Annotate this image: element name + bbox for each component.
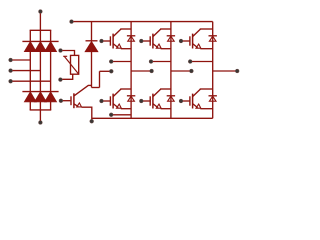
terminal brake emitter / DC- pin bbox=[90, 119, 94, 123]
wire emitter sense lead leg 1 bbox=[111, 114, 131, 116]
diode D13 cathode bar bbox=[167, 35, 175, 37]
wire inverter leg 3 main vertical (DC+ to DC-) bbox=[212, 22, 214, 119]
wire rectifier mid column left bbox=[29, 52, 31, 92]
diode D12 freewheel (open triangle, cathode up) bbox=[128, 96, 135, 101]
terminal Q5 top W gate pin bbox=[179, 39, 183, 43]
terminal DC+ rectifier output (top pin) bbox=[39, 10, 43, 14]
transistor Q7 brake IGBT body bar bbox=[73, 93, 75, 108]
diode D7 brake (cathode bar) bbox=[86, 40, 98, 42]
wire rectifier top stem bbox=[39, 12, 41, 31]
transistor Q5 top W emitter diagonal bbox=[193, 44, 198, 48]
terminal thermistor pin 2 bbox=[59, 78, 63, 82]
wire Q6 bottom W emitter run bbox=[200, 108, 212, 110]
transistor Q5 top W gate bar bbox=[189, 36, 191, 45]
transistor Q1 top U collector diagonal bbox=[113, 29, 121, 36]
wire inverter leg 1 main vertical (DC+ to DC-) bbox=[130, 22, 132, 119]
transistor Q1 top U emitter arrow bbox=[117, 44, 122, 48]
wire brake auxiliary lead bbox=[100, 70, 112, 72]
transistor Q2 bottom U body bar bbox=[112, 94, 114, 109]
terminal Q3 top V gate pin bbox=[139, 39, 143, 43]
transistor Q4 bottom V emitter diagonal bbox=[153, 104, 158, 108]
terminal DC+ inverter bus pin bbox=[70, 20, 74, 24]
wire rectifier bottom column mid bbox=[39, 102, 41, 110]
transistor Q6 bottom W gate bar bbox=[189, 96, 191, 105]
wire Q4 bottom V emitter run bbox=[161, 108, 171, 110]
wire brake collector stub left bbox=[88, 84, 91, 86]
transistor Q7 brake IGBT emitter diagonal bbox=[74, 104, 78, 107]
wire DC- rail bbox=[92, 117, 213, 119]
terminal Q6 bottom W gate pin bbox=[179, 99, 183, 103]
wire AC input W bbox=[11, 80, 51, 82]
diode D11 cathode bar bbox=[127, 35, 135, 37]
wire phase output 3 bbox=[190, 61, 213, 63]
transistor Q7 brake IGBT emitter arrow bbox=[77, 103, 82, 107]
wire Q3 top V gate lead bbox=[141, 40, 150, 42]
transistor Q3 top V body bar bbox=[152, 34, 154, 49]
wire Q1 top U emitter run bbox=[121, 48, 131, 50]
transistor Q4 bottom V body bar bbox=[152, 94, 154, 109]
terminal phase output pin 1 bbox=[109, 60, 113, 64]
wire brake emitter run bbox=[82, 107, 92, 121]
diode D1 (rectifier top, anode down cathode up) bbox=[24, 41, 36, 51]
wire Q2 bottom U emitter run bbox=[121, 108, 131, 110]
transistor Q4 bottom V emitter arrow bbox=[156, 104, 161, 108]
wire brake collector riser bbox=[99, 71, 101, 87]
wire thermistor bottom lead bbox=[60, 74, 72, 79]
transistor Q3 top V collector diagonal bbox=[153, 29, 161, 36]
diode D14 cathode bar bbox=[167, 95, 175, 97]
terminal thermistor pin 1 bbox=[59, 49, 63, 53]
terminal brake auxiliary pin bbox=[109, 69, 113, 73]
transistor Q6 bottom W emitter diagonal bbox=[193, 104, 198, 108]
wire brake gate lead bbox=[61, 100, 71, 102]
transistor Q6 bottom W emitter arrow bbox=[196, 104, 201, 108]
wire rectifier bottom column right bbox=[50, 102, 52, 110]
thermistor RT1 diagonal stroke bbox=[64, 56, 78, 73]
transistor Q1 top U body bar bbox=[112, 34, 114, 49]
diode D15 freewheel (open triangle, cathode up) bbox=[209, 36, 216, 41]
diode D4 (rectifier bottom, anode down cathode up) bbox=[24, 92, 36, 102]
wire DC+ rail bbox=[72, 21, 213, 23]
wire Q4 bottom V gate lead bbox=[141, 100, 150, 102]
terminal AC input U bbox=[9, 58, 13, 62]
transistor Q3 top V emitter diagonal bbox=[153, 44, 158, 48]
wire AC input V bbox=[11, 70, 41, 72]
terminal phase auxiliary pin 2 bbox=[190, 69, 194, 73]
wire phase output 1 bbox=[111, 61, 131, 63]
terminal Q4 bottom V gate pin bbox=[139, 99, 143, 103]
diode D12 cathode bar bbox=[127, 95, 135, 97]
wire rectifier bottom cathode bar bbox=[22, 91, 58, 93]
diode D6 (rectifier bottom, anode down cathode up) bbox=[45, 92, 57, 102]
diode D13 freewheel (open triangle, cathode up) bbox=[168, 36, 175, 41]
transistor Q1 top U emitter diagonal bbox=[113, 44, 118, 48]
wire phase auxiliary 3 bbox=[213, 70, 238, 72]
transistor Q5 top W collector diagonal bbox=[193, 29, 201, 36]
wire Q5 top W gate lead bbox=[181, 40, 190, 42]
wire Q4 bottom V collector run bbox=[160, 88, 171, 90]
wire Q5 top W collector run bbox=[200, 28, 213, 30]
terminal AC input W bbox=[9, 79, 13, 83]
transistor Q3 top V gate bar bbox=[149, 36, 151, 45]
wire rectifier top column mid bbox=[39, 30, 41, 41]
wire phase auxiliary 2 bbox=[171, 70, 192, 72]
wire rectifier mid column mid bbox=[39, 52, 41, 92]
terminal phase output pin 2 bbox=[149, 60, 153, 64]
transistor Q7 brake IGBT collector diagonal bbox=[74, 85, 89, 96]
terminal Q2 bottom U gate pin bbox=[100, 99, 104, 103]
wire Q3 top V collector run bbox=[160, 28, 171, 30]
wire inverter leg 2 main vertical (DC+ to DC-) bbox=[170, 22, 172, 119]
wire rectifier top cathode bar bbox=[22, 40, 58, 42]
transistor Q6 bottom W collector diagonal bbox=[193, 89, 201, 97]
wire brake diode to chopper collector node bbox=[91, 52, 93, 88]
transistor Q6 bottom W body bar bbox=[192, 94, 194, 109]
diode D16 freewheel (open triangle, cathode up) bbox=[209, 96, 216, 101]
wire rectifier bottom footer bbox=[30, 109, 52, 111]
transistor Q2 bottom U gate bar bbox=[109, 96, 111, 105]
terminal phase auxiliary pin 3 bbox=[235, 69, 239, 73]
diode D5 (rectifier bottom, anode down cathode up) bbox=[34, 92, 46, 102]
terminal phase output pin 3 bbox=[188, 60, 192, 64]
thermistor RT1 diagonal foot bbox=[63, 55, 67, 57]
wire rectifier top header bbox=[30, 29, 52, 31]
transistor Q2 bottom U emitter arrow bbox=[117, 104, 122, 108]
transistor Q1 top U gate bar bbox=[109, 36, 111, 45]
transistor Q7 brake IGBT gate bar bbox=[70, 96, 72, 105]
diode D14 freewheel (open triangle, cathode up) bbox=[168, 96, 175, 101]
diode D7 brake (filled triangle, cathode up) bbox=[85, 41, 98, 52]
wire Q1 top U collector run bbox=[120, 28, 131, 30]
wire rectifier mid column right bbox=[50, 52, 52, 92]
wire brake diode branch from DC+ rail bbox=[91, 22, 93, 42]
transistor Q5 top W emitter arrow bbox=[196, 44, 201, 48]
wire Q5 top W emitter run bbox=[200, 48, 212, 50]
terminal phase auxiliary pin 1 bbox=[150, 69, 154, 73]
wire thermistor top lead bbox=[61, 51, 75, 56]
wire brake collector stub right bbox=[92, 87, 100, 89]
wire phase output 2 bbox=[151, 61, 171, 63]
wire Q1 top U gate lead bbox=[102, 40, 111, 42]
transistor Q2 bottom U emitter diagonal bbox=[113, 104, 118, 108]
thermistor RT1 body bbox=[71, 55, 79, 74]
wire rectifier top column right bbox=[50, 30, 52, 41]
diode D15 cathode bar bbox=[209, 35, 217, 37]
wire Q6 bottom W collector run bbox=[200, 88, 213, 90]
diode D2 (rectifier top, anode down cathode up) bbox=[34, 41, 46, 51]
transistor Q2 bottom U collector diagonal bbox=[113, 89, 121, 97]
wire AC input U bbox=[11, 59, 31, 61]
diode D16 cathode bar bbox=[209, 95, 217, 97]
wire Q6 bottom W gate lead bbox=[181, 100, 190, 102]
terminal emitter sense pin leg 1 bbox=[109, 113, 113, 117]
terminal AC input V bbox=[9, 69, 13, 73]
diode D3 (rectifier top, anode down cathode up) bbox=[45, 41, 57, 51]
wire rectifier bottom column left bbox=[29, 102, 31, 110]
terminal DC- rectifier output (bottom pin) bbox=[39, 121, 43, 125]
diode D11 freewheel (open triangle, cathode up) bbox=[128, 36, 135, 41]
terminal brake gate pin bbox=[59, 99, 63, 103]
transistor Q4 bottom V collector diagonal bbox=[153, 89, 161, 97]
transistor Q5 top W body bar bbox=[192, 34, 194, 49]
terminal Q1 top U gate pin bbox=[100, 39, 104, 43]
wire Q2 bottom U collector run bbox=[120, 88, 131, 90]
wire Q2 bottom U gate lead bbox=[102, 100, 111, 102]
wire rectifier top column left bbox=[29, 30, 31, 41]
transistor Q4 bottom V gate bar bbox=[149, 96, 151, 105]
wire rectifier bottom stem bbox=[39, 110, 41, 123]
transistor Q3 top V emitter arrow bbox=[156, 44, 161, 48]
wire Q3 top V emitter run bbox=[161, 48, 171, 50]
wire phase auxiliary 1 bbox=[131, 70, 152, 72]
